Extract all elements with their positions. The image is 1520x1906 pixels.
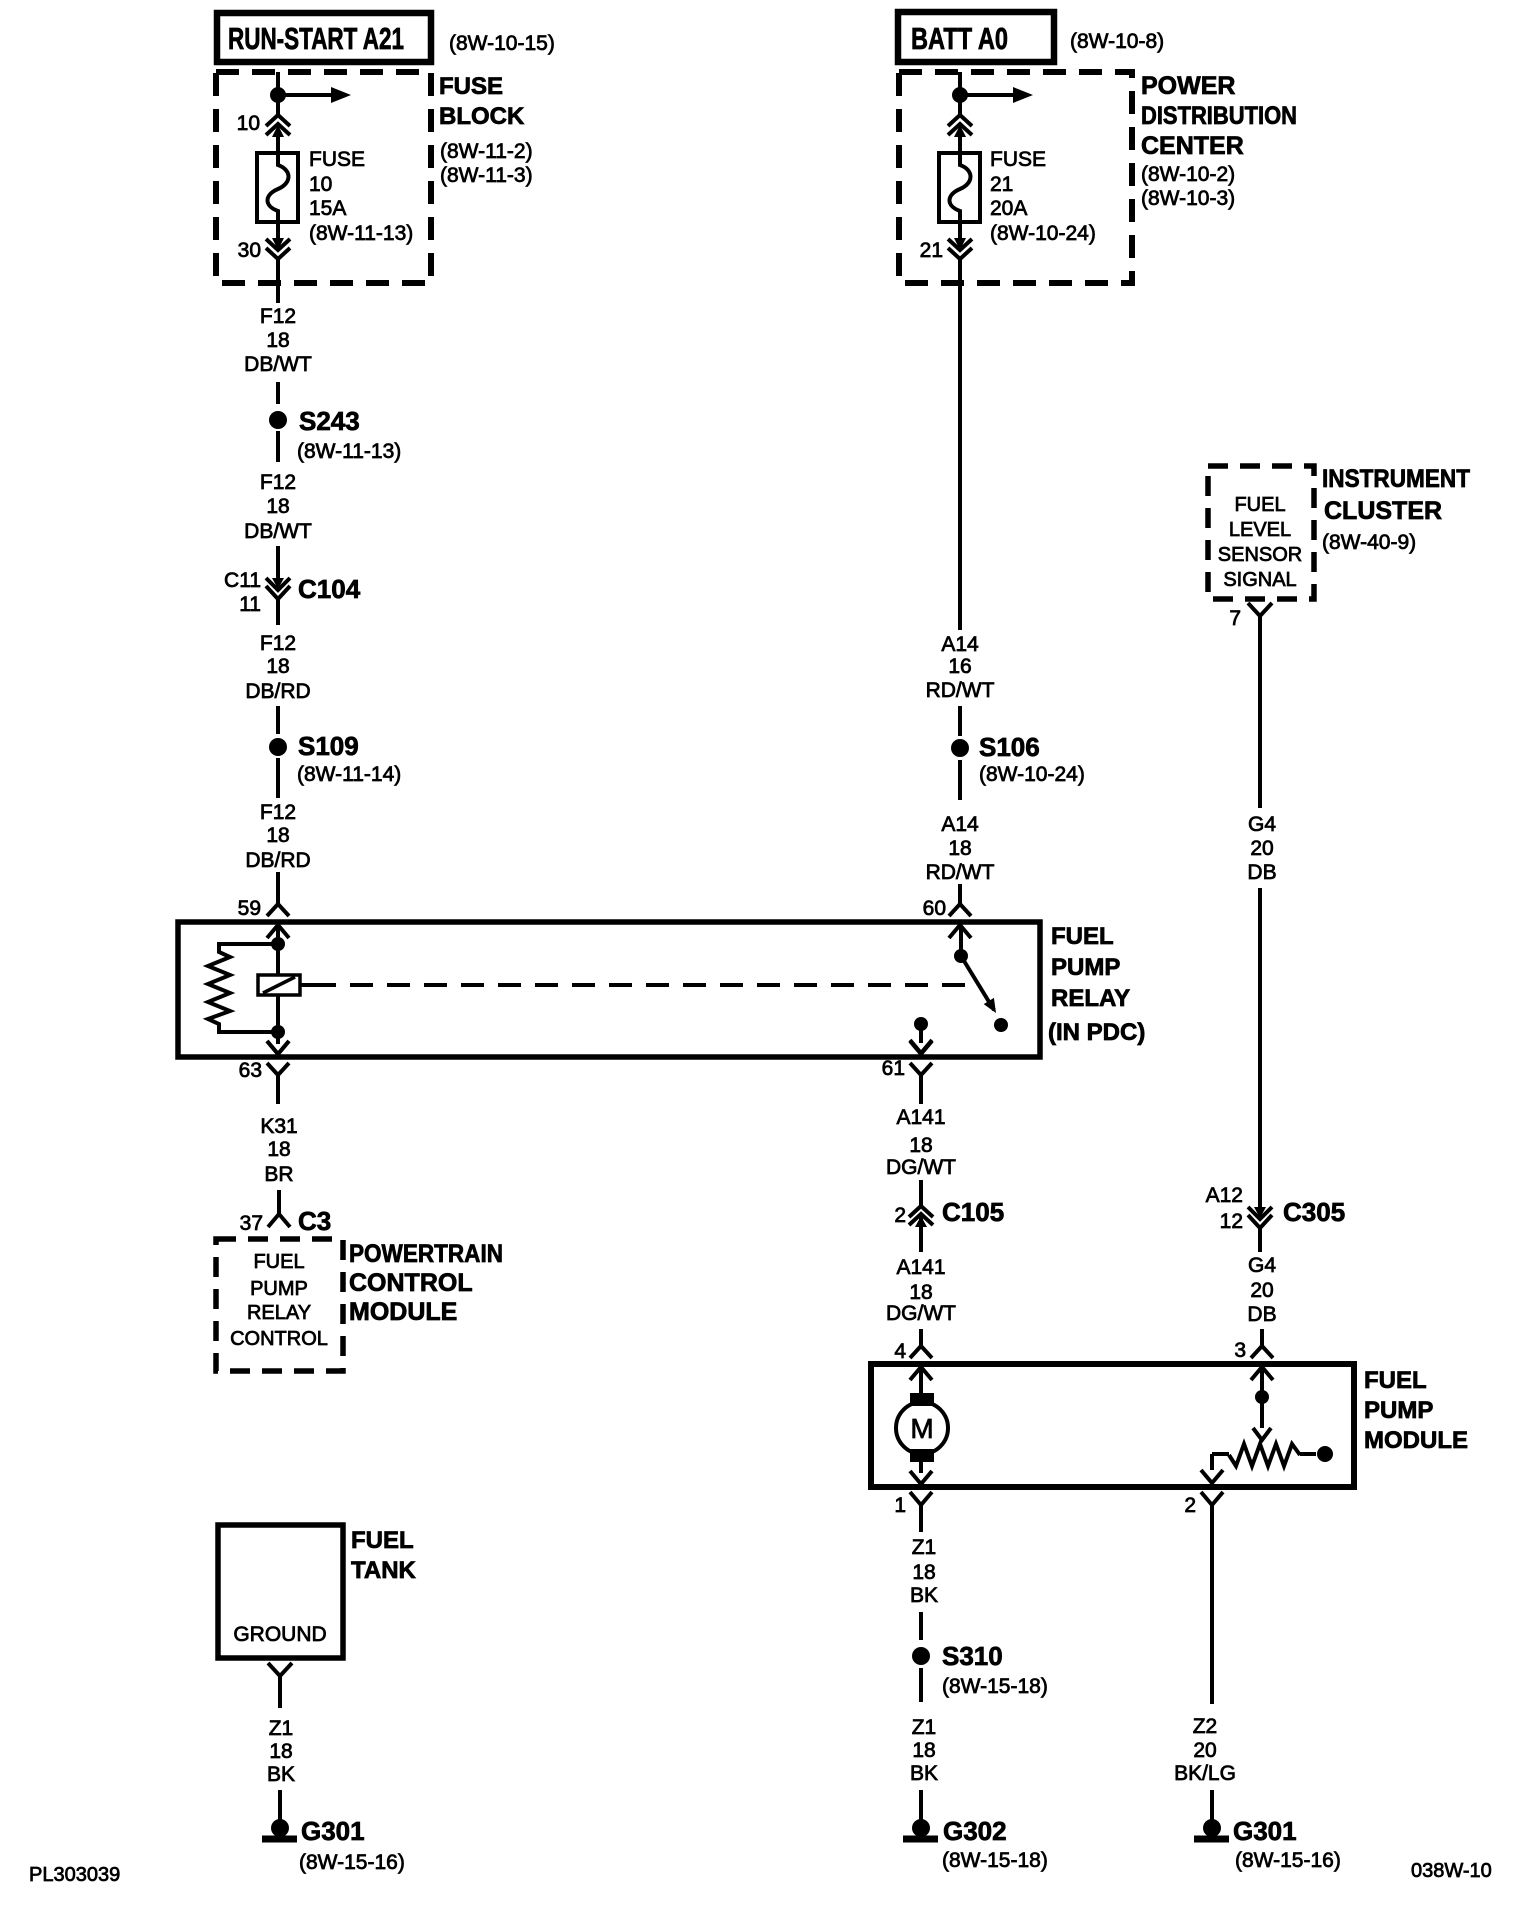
svg-text:2: 2 <box>1184 1494 1196 1517</box>
svg-text:(8W-11-14): (8W-11-14) <box>297 763 401 786</box>
svg-text:3: 3 <box>1234 1339 1246 1362</box>
svg-text:BK/LG: BK/LG <box>1174 1762 1236 1785</box>
svg-text:18: 18 <box>912 1739 935 1762</box>
svg-text:S106: S106 <box>979 732 1040 762</box>
svg-text:G302: G302 <box>943 1816 1007 1846</box>
svg-text:A141: A141 <box>896 1256 945 1279</box>
svg-text:FUSE: FUSE <box>309 148 365 171</box>
svg-text:BLOCK: BLOCK <box>439 103 525 130</box>
svg-text:INSTRUMENT: INSTRUMENT <box>1322 465 1470 493</box>
svg-text:FUEL: FUEL <box>1051 923 1114 950</box>
svg-text:18: 18 <box>267 1138 290 1161</box>
svg-text:DG/WT: DG/WT <box>886 1156 956 1179</box>
svg-text:C105: C105 <box>942 1197 1004 1227</box>
svg-text:A141: A141 <box>896 1106 945 1129</box>
svg-text:DB/RD: DB/RD <box>245 680 310 703</box>
svg-text:A12: A12 <box>1206 1184 1243 1207</box>
svg-text:PUMP: PUMP <box>250 1278 308 1300</box>
svg-text:BATT A0: BATT A0 <box>911 21 1008 56</box>
svg-text:BR: BR <box>264 1163 293 1186</box>
svg-text:F12: F12 <box>260 632 296 655</box>
svg-text:18: 18 <box>909 1281 932 1304</box>
svg-text:20: 20 <box>1250 837 1273 860</box>
svg-text:GROUND: GROUND <box>233 1623 326 1646</box>
svg-text:DB/RD: DB/RD <box>245 849 310 872</box>
svg-text:LEVEL: LEVEL <box>1229 519 1291 541</box>
svg-text:4: 4 <box>894 1340 906 1363</box>
svg-text:FUEL: FUEL <box>1364 1367 1427 1394</box>
svg-text:S310: S310 <box>942 1641 1003 1671</box>
svg-text:FUEL: FUEL <box>1234 494 1285 516</box>
svg-text:(8W-15-16): (8W-15-16) <box>1235 1849 1341 1872</box>
svg-text:63: 63 <box>239 1059 262 1082</box>
svg-text:(IN PDC): (IN PDC) <box>1048 1019 1145 1046</box>
svg-text:21: 21 <box>990 173 1013 196</box>
svg-text:Z1: Z1 <box>912 1716 937 1739</box>
svg-text:(8W-10-8): (8W-10-8) <box>1070 30 1164 53</box>
svg-text:G301: G301 <box>1233 1816 1297 1846</box>
svg-text:(8W-10-2): (8W-10-2) <box>1141 163 1235 186</box>
svg-text:18: 18 <box>266 824 289 847</box>
svg-text:RD/WT: RD/WT <box>926 679 995 702</box>
svg-text:BK: BK <box>910 1762 938 1785</box>
svg-text:DB: DB <box>1247 1303 1276 1326</box>
svg-text:2: 2 <box>894 1204 906 1227</box>
svg-text:C11: C11 <box>224 569 261 592</box>
svg-text:POWERTRAIN: POWERTRAIN <box>349 1240 503 1268</box>
svg-text:RD/WT: RD/WT <box>926 861 995 884</box>
svg-text:18: 18 <box>266 329 289 352</box>
svg-text:18: 18 <box>912 1561 935 1584</box>
svg-text:FUSE: FUSE <box>439 73 503 100</box>
svg-text:(8W-10-24): (8W-10-24) <box>979 763 1085 786</box>
svg-text:PUMP: PUMP <box>1051 954 1120 981</box>
svg-text:(8W-10-15): (8W-10-15) <box>449 32 555 55</box>
svg-text:POWER: POWER <box>1141 72 1235 100</box>
svg-text:CENTER: CENTER <box>1141 132 1244 160</box>
svg-text:Z1: Z1 <box>912 1536 937 1559</box>
svg-text:(8W-40-9): (8W-40-9) <box>1322 531 1416 554</box>
svg-text:DISTRIBUTION: DISTRIBUTION <box>1141 102 1297 130</box>
svg-text:(8W-10-3): (8W-10-3) <box>1141 187 1235 210</box>
svg-text:(8W-10-24): (8W-10-24) <box>990 222 1096 245</box>
svg-text:18: 18 <box>266 655 289 678</box>
svg-text:(8W-11-3): (8W-11-3) <box>440 164 533 187</box>
svg-text:MODULE: MODULE <box>349 1298 457 1326</box>
svg-text:BK: BK <box>910 1584 938 1607</box>
svg-text:MODULE: MODULE <box>1364 1427 1468 1454</box>
svg-text:(8W-11-13): (8W-11-13) <box>297 440 401 463</box>
svg-text:F12: F12 <box>260 471 296 494</box>
svg-text:CLUSTER: CLUSTER <box>1324 497 1442 525</box>
svg-text:CONTROL: CONTROL <box>230 1328 328 1350</box>
svg-text:C104: C104 <box>298 574 361 604</box>
svg-text:C3: C3 <box>298 1206 331 1236</box>
svg-text:A14: A14 <box>941 813 979 836</box>
svg-text:A14: A14 <box>941 633 979 656</box>
svg-text:DB: DB <box>1247 861 1276 884</box>
svg-text:RUN-START A21: RUN-START A21 <box>228 21 404 56</box>
svg-text:16: 16 <box>948 655 971 678</box>
svg-text:G4: G4 <box>1248 1254 1276 1277</box>
svg-text:TANK: TANK <box>351 1557 417 1584</box>
svg-text:60: 60 <box>923 897 946 920</box>
svg-text:20: 20 <box>1250 1279 1273 1302</box>
svg-text:(8W-15-16): (8W-15-16) <box>299 1851 405 1874</box>
svg-text:DG/WT: DG/WT <box>886 1302 956 1325</box>
svg-text:RELAY: RELAY <box>247 1302 311 1324</box>
svg-text:Z1: Z1 <box>269 1717 294 1740</box>
svg-text:S243: S243 <box>299 406 360 436</box>
svg-text:12: 12 <box>1220 1210 1243 1233</box>
svg-text:18: 18 <box>948 837 971 860</box>
svg-text:20A: 20A <box>990 197 1027 220</box>
svg-text:RELAY: RELAY <box>1051 985 1130 1012</box>
svg-text:F12: F12 <box>260 801 296 824</box>
svg-text:M: M <box>910 1413 933 1444</box>
svg-text:PUMP: PUMP <box>1364 1397 1433 1424</box>
svg-text:G301: G301 <box>301 1816 365 1846</box>
svg-text:BK: BK <box>267 1763 295 1786</box>
svg-text:(8W-11-2): (8W-11-2) <box>440 140 533 163</box>
svg-text:11: 11 <box>239 593 261 616</box>
svg-text:K31: K31 <box>260 1115 297 1138</box>
svg-text:FUEL: FUEL <box>351 1527 414 1554</box>
svg-text:61: 61 <box>882 1057 905 1080</box>
svg-text:038W-10: 038W-10 <box>1411 1860 1492 1882</box>
svg-text:10: 10 <box>237 112 260 135</box>
svg-text:G4: G4 <box>1248 813 1276 836</box>
svg-text:SENSOR: SENSOR <box>1218 544 1302 566</box>
svg-text:18: 18 <box>909 1134 932 1157</box>
svg-text:18: 18 <box>269 1740 292 1763</box>
svg-text:Z2: Z2 <box>1193 1715 1218 1738</box>
svg-text:(8W-15-18): (8W-15-18) <box>942 1849 1048 1872</box>
svg-text:S109: S109 <box>298 731 359 761</box>
svg-text:CONTROL: CONTROL <box>349 1269 473 1297</box>
svg-text:F12: F12 <box>260 305 296 328</box>
svg-text:21: 21 <box>920 239 943 262</box>
svg-text:1: 1 <box>894 1494 906 1517</box>
svg-text:C305: C305 <box>1283 1197 1345 1227</box>
svg-text:DB/WT: DB/WT <box>244 520 312 543</box>
svg-text:(8W-15-18): (8W-15-18) <box>942 1675 1048 1698</box>
svg-text:15A: 15A <box>309 197 346 220</box>
svg-text:7: 7 <box>1229 607 1241 630</box>
svg-text:(8W-11-13): (8W-11-13) <box>309 222 413 245</box>
svg-text:30: 30 <box>238 239 261 262</box>
svg-text:SIGNAL: SIGNAL <box>1223 569 1296 591</box>
svg-text:59: 59 <box>238 897 261 920</box>
svg-text:DB/WT: DB/WT <box>244 353 312 376</box>
svg-text:10: 10 <box>309 173 332 196</box>
svg-text:FUEL: FUEL <box>253 1251 304 1273</box>
svg-text:FUSE: FUSE <box>990 148 1046 171</box>
svg-text:37: 37 <box>240 1212 263 1235</box>
svg-text:PL303039: PL303039 <box>29 1864 120 1886</box>
svg-text:20: 20 <box>1193 1739 1216 1762</box>
svg-text:18: 18 <box>266 495 289 518</box>
